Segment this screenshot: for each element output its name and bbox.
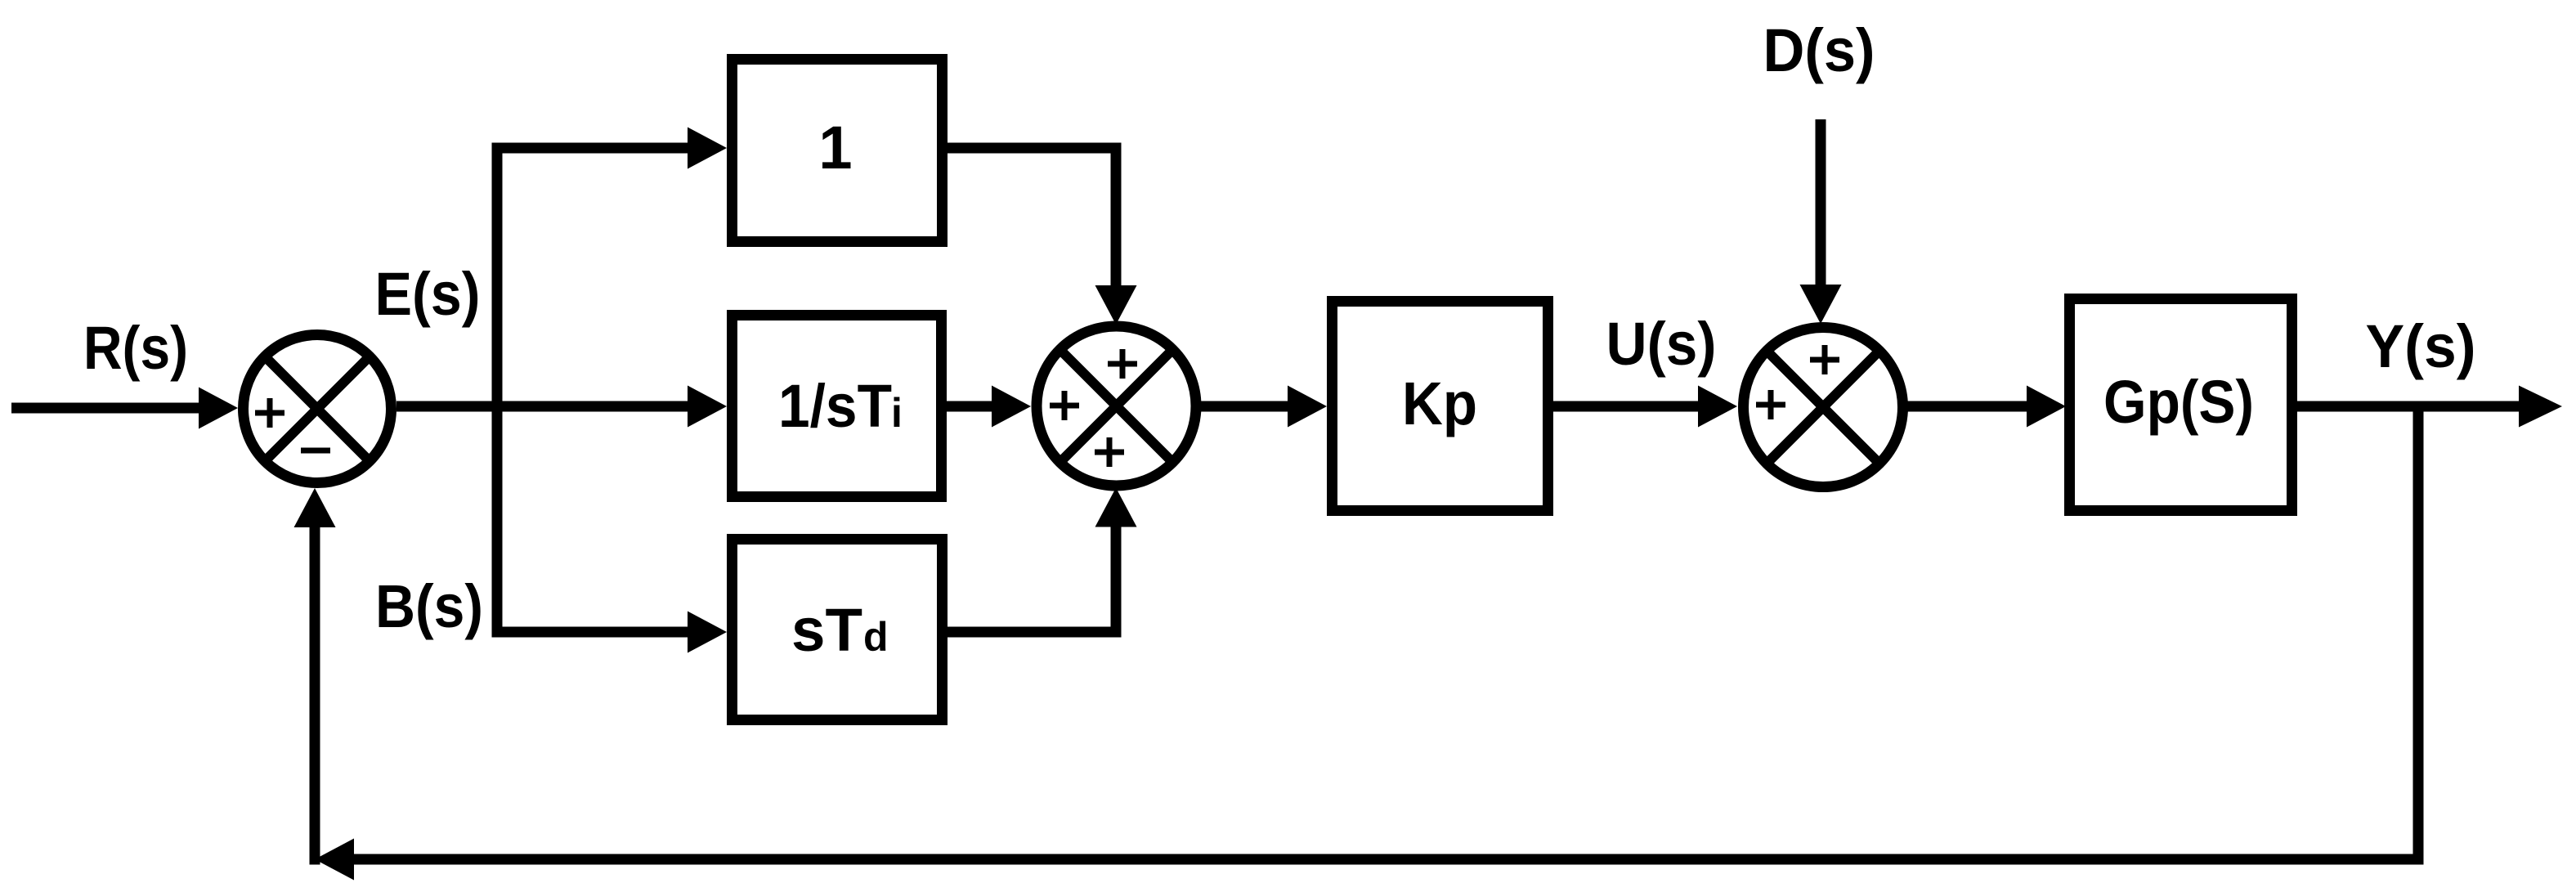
- wire block 1 output to summing junction S2 top: [948, 148, 1116, 285]
- svg-text:Gp(S): Gp(S): [2103, 368, 2254, 436]
- summing junction S1: [244, 335, 392, 483]
- arrowhead into S1 bottom: [294, 488, 336, 527]
- block Kp: [1333, 302, 1548, 511]
- arrowhead into S2 top: [1095, 285, 1137, 325]
- svg-text:Kp: Kp: [1402, 370, 1477, 437]
- block I (1/sTi): [732, 316, 942, 497]
- arrowhead feedback left corner: [315, 839, 354, 881]
- svg-text:E(s): E(s): [375, 260, 481, 328]
- wire R(s) input line: [11, 403, 204, 414]
- wire block D output to S2 bottom: [948, 527, 1116, 633]
- svg-text:B(s): B(s): [375, 572, 483, 640]
- svg-text:d: d: [863, 614, 889, 660]
- wire S3 output to Gp block: [1903, 401, 2027, 412]
- S3 plus sign left: [1756, 390, 1785, 419]
- wire top branch to block 1: [492, 143, 692, 154]
- svg-text:D(s): D(s): [1763, 16, 1875, 84]
- summing junction S3: [1744, 328, 1903, 487]
- arrowhead into summing junction S1: [199, 388, 238, 429]
- arrowhead into S3 top: [1800, 285, 1842, 324]
- block P (gain 1): [732, 60, 943, 242]
- arrowhead into S2 bottom: [1095, 488, 1137, 527]
- arrowhead into Kp block: [1288, 386, 1327, 428]
- arrowhead into 1/sTi block: [688, 386, 727, 428]
- S1 plus sign: [255, 398, 284, 428]
- wire feedback vertical up to S1: [310, 527, 320, 865]
- arrowhead into S2 left: [992, 386, 1031, 428]
- S1 minus sign: [301, 448, 330, 454]
- wire D(s) input to S3 top: [1816, 119, 1826, 285]
- svg-text:1/sT: 1/sT: [778, 372, 892, 440]
- wire Gp output to Y(s): [2297, 401, 2523, 412]
- wire branch vertical at node E: [492, 143, 503, 638]
- arrowhead into block 1: [688, 128, 727, 169]
- S2 plus sign top: [1108, 349, 1137, 379]
- wire S1 output to 1/sTi block (node E): [396, 401, 691, 412]
- svg-text:i: i: [891, 390, 903, 436]
- block D (sTd): [732, 540, 943, 720]
- S2 plus sign left: [1050, 391, 1079, 420]
- arrowhead into S3 left: [1698, 386, 1737, 428]
- arrowhead output Y(s): [2519, 386, 2562, 428]
- block Gp(S) plant: [2070, 299, 2292, 511]
- S3 plus sign top: [1810, 345, 1839, 374]
- block D value label sTd: [791, 596, 889, 664]
- wire S2 output to Kp block: [1196, 401, 1288, 412]
- wire bottom branch to block sTd: [492, 627, 692, 638]
- svg-text:sT: sT: [791, 596, 862, 664]
- svg-text:Y(s): Y(s): [2366, 312, 2476, 380]
- svg-text:R(s): R(s): [83, 314, 188, 382]
- wire feedback from node Y down and across bottom: [354, 406, 2418, 859]
- svg-text:1: 1: [818, 114, 852, 182]
- block I value label 1/sTi: [778, 372, 903, 440]
- wire block I output to S2 left: [947, 401, 992, 412]
- wire Kp output to summing junction S3 (node U): [1553, 401, 1698, 412]
- arrowhead into Gp block: [2027, 386, 2066, 428]
- S2 plus sign bottom: [1095, 437, 1124, 467]
- summing junction S2: [1037, 326, 1196, 486]
- svg-text:U(s): U(s): [1606, 310, 1717, 378]
- arrowhead into block sTd: [688, 612, 727, 653]
